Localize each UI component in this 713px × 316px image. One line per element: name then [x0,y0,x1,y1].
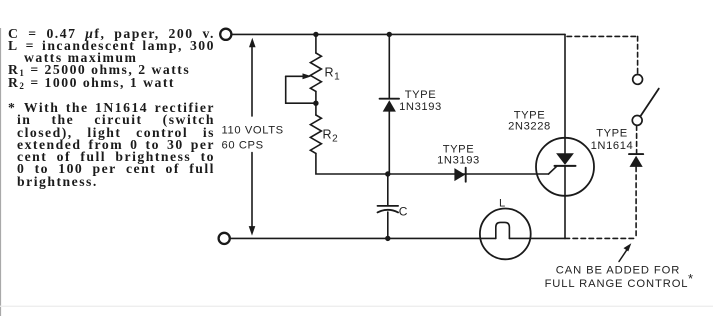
wire bottom rail right [509,237,565,239]
annotation arrow to dashed corner [619,243,631,261]
component value notes text block [8,28,215,189]
lamp L [480,209,531,260]
scan artifact bottom rule [0,306,713,307]
node wiper junction [313,101,318,106]
svg-text:1N3193: 1N3193 [437,155,480,167]
SCR U1 TYPE 2N3228 [536,138,594,196]
wire gate entry into SCR [549,166,558,174]
svg-text:TYPE: TYPE [596,127,628,139]
wire bottom rail left [230,237,496,239]
wire SCR cathode drop [564,166,566,239]
svg-text:CAN BE ADDED FOR: CAN BE ADDED FOR [556,265,680,277]
potentiometer wiper arm R1 [286,73,316,103]
svg-text:R1: R1 [325,66,341,83]
wire R1 to R2 [315,91,317,115]
svg-text:60 CPS: 60 CPS [222,139,264,151]
wire capacitor bottom lead [387,212,389,238]
wire diode D1 branch [388,34,390,98]
svg-text:1N1614: 1N1614 [591,140,634,152]
node top rail diode branch [387,32,392,37]
wire R2 down to gate line [316,153,549,174]
svg-text:*: * [688,271,694,286]
svg-text:C: C [399,204,408,218]
wire SCR anode drop [564,34,566,153]
node top rail R1 [313,32,318,37]
node capacitor bottom junction [385,236,390,241]
wire dashed down to switch [637,36,639,74]
terminal bottom-left [219,233,230,244]
svg-text:TYPE: TYPE [443,143,475,155]
wire capacitor top lead [387,174,389,205]
svg-text:TYPE: TYPE [405,89,437,101]
svg-text:FULL RANGE CONTROL: FULL RANGE CONTROL [545,278,689,290]
diode D3 TYPE 1N1614 (vertical, dashed branch) [629,154,643,167]
wire dashed top rail extension [567,35,638,37]
wire dashed switch to diode [636,126,638,154]
terminal top-left [220,29,231,40]
svg-text:110 VOLTS: 110 VOLTS [222,125,284,137]
wire R1 branch top [315,34,317,53]
svg-text:2N3228: 2N3228 [508,121,551,133]
svg-text:R2: R2 [323,128,339,145]
capacitor C [378,206,399,213]
wire top rail [232,33,565,35]
resistor R2 [310,115,321,153]
svg-text:L: L [499,197,506,209]
switch S1 (open) [632,75,659,126]
wire dashed diode to bottom corner [635,167,637,239]
diode D1 TYPE 1N3193 (vertical) [380,99,399,112]
voltage measure arrow 110V [249,38,256,236]
svg-text:1N3193: 1N3193 [399,101,442,113]
diode D2 TYPE 1N3193 (horizontal, on gate line) [454,168,465,182]
resistor R1 [310,53,321,91]
wire dashed bottom rail extension [565,237,636,239]
node gate line / capacitor junction [385,171,390,176]
scan edge artifact left [0,28,1,316]
wire D1 to gate line [388,112,390,174]
